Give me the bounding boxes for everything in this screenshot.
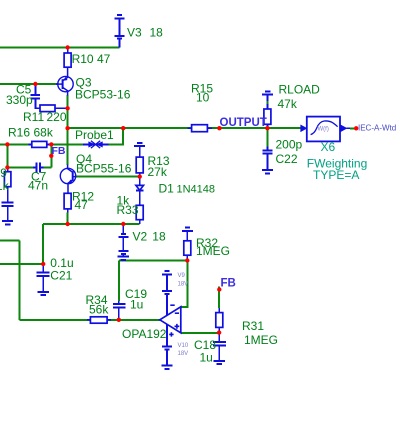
- svg-text:R33: R33: [117, 203, 139, 217]
- svg-text:BCP53-16: BCP53-16: [75, 88, 131, 102]
- svg-text:W(f): W(f): [318, 127, 329, 133]
- svg-text:R16: R16: [8, 126, 30, 140]
- svg-text:1N4148: 1N4148: [177, 183, 216, 195]
- svg-text:C22: C22: [276, 152, 298, 166]
- svg-text:18: 18: [152, 230, 166, 244]
- svg-text:OPA192: OPA192: [122, 327, 167, 341]
- svg-text:18V: 18V: [178, 282, 189, 288]
- svg-text:200p: 200p: [276, 137, 303, 151]
- svg-text:1k: 1k: [0, 179, 10, 193]
- svg-text:X6: X6: [321, 140, 336, 154]
- svg-text:V9: V9: [178, 273, 186, 279]
- svg-text:18V: 18V: [178, 351, 189, 357]
- svg-text:1MEG: 1MEG: [196, 244, 230, 258]
- svg-text:BCP55-16: BCP55-16: [76, 162, 132, 176]
- svg-text:R31: R31: [242, 319, 264, 333]
- svg-text:1u: 1u: [130, 298, 143, 312]
- svg-text:OUTPUT: OUTPUT: [220, 117, 267, 129]
- svg-text:68k: 68k: [34, 126, 54, 140]
- svg-text:R11: R11: [23, 110, 44, 124]
- svg-text:V10: V10: [178, 343, 189, 349]
- svg-text:V2: V2: [133, 230, 148, 244]
- svg-text:1u: 1u: [200, 350, 213, 364]
- svg-text:V3: V3: [127, 26, 142, 40]
- svg-text:10: 10: [196, 91, 210, 105]
- svg-text:27k: 27k: [148, 165, 168, 179]
- svg-text:56k: 56k: [89, 302, 109, 316]
- svg-text:330p: 330p: [6, 93, 33, 107]
- svg-text:IEC-A-Wtd: IEC-A-Wtd: [358, 124, 396, 133]
- svg-text:47k: 47k: [278, 97, 298, 111]
- svg-text:TYPE=A: TYPE=A: [313, 168, 359, 182]
- svg-text:1MEG: 1MEG: [244, 333, 278, 347]
- svg-text:RLOAD: RLOAD: [279, 83, 321, 97]
- svg-text:Probe1: Probe1: [75, 128, 114, 142]
- svg-text:D1: D1: [159, 181, 175, 195]
- svg-text:220: 220: [47, 110, 67, 124]
- svg-text:FB: FB: [52, 145, 66, 157]
- svg-text:C21: C21: [50, 269, 72, 283]
- svg-text:R10 47: R10 47: [72, 52, 111, 66]
- svg-text:47n: 47n: [28, 179, 48, 193]
- svg-text:FB: FB: [221, 278, 236, 290]
- svg-text:47: 47: [75, 198, 89, 212]
- svg-text:R9: R9: [0, 166, 7, 180]
- svg-text:18: 18: [150, 26, 164, 40]
